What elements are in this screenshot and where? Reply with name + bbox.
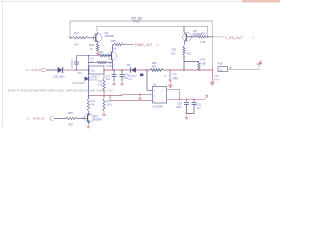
capacitor C9 between gate row and signal wire <box>76 56 78 62</box>
flag under R23 <box>103 112 105 114</box>
svg-text:2N5087: 2N5087 <box>93 118 103 122</box>
resistor R29 (Q6 emitter) <box>96 44 99 52</box>
junction Q8 base <box>191 36 193 38</box>
input port symbol <box>41 68 46 71</box>
wire: input to C26 <box>46 69 59 71</box>
resistor R on gate row <box>99 54 108 56</box>
junction rail x186.5 <box>186 99 188 101</box>
svg-text:1N5817: 1N5817 <box>91 75 100 78</box>
svg-text:R24: R24 <box>98 81 103 83</box>
wire: B drop to Q8 collector <box>183 26 185 32</box>
wire: right rail lower <box>212 37 214 70</box>
svg-text:R25: R25 <box>68 111 73 115</box>
svg-text:10k: 10k <box>171 52 176 56</box>
wires to U2 left pins <box>109 96 111 101</box>
+9V pink down flag onto pin wire <box>169 78 171 85</box>
junction x199 <box>198 69 200 71</box>
wire y=95.6 <box>89 95 123 97</box>
-9V flag below output node <box>212 70 214 80</box>
boxed component on signal wire <box>89 66 104 74</box>
wire: right rail upper <box>212 21 214 37</box>
wire to R17 <box>70 37 72 39</box>
svg-text:U2: U2 <box>153 82 157 86</box>
9V port symbol <box>50 117 54 120</box>
resistor R35 10K on wire A <box>132 20 142 22</box>
diode D below box <box>85 77 90 82</box>
svg-text:C33: C33 <box>171 48 176 52</box>
-9V floating down flag <box>211 78 213 83</box>
svg-text:47k: 47k <box>74 43 79 47</box>
svg-text:R29: R29 <box>98 50 103 54</box>
svg-text:R35: R35 <box>131 16 136 20</box>
power rail y=99.3 <box>167 98 205 100</box>
diode D7 (input) <box>58 67 63 73</box>
pink down arrow -9V <box>212 80 214 82</box>
IC U2 box <box>153 87 167 104</box>
svg-text:10k: 10k <box>112 47 117 51</box>
capacitor C30 <box>186 99 188 102</box>
svg-text:R36: R36 <box>218 62 223 66</box>
junction x110 y95.6 <box>109 95 111 97</box>
transistor Q10 2N5087 (vertical) <box>87 115 89 122</box>
svg-text:NOTE: IF USING A 9V BATTERY SU: NOTE: IF USING A 9V BATTERY SUPPLY ONLY,… <box>8 89 113 93</box>
svg-text:1.3K: 1.3K <box>200 40 206 44</box>
junction x147 <box>146 69 148 71</box>
svg-text:100n: 100n <box>176 106 182 109</box>
transistor Q6 2N5088 <box>95 34 97 41</box>
junction x184 <box>183 69 185 71</box>
junction cap branch <box>76 69 78 71</box>
svg-text:100k: 100k <box>97 85 103 87</box>
wire: A left drop to Q6 base row <box>69 21 71 38</box>
svg-text:1R: 1R <box>26 70 29 72</box>
svg-text:TL0: TL0 <box>91 70 96 73</box>
resistor pair lower <box>88 96 90 99</box>
vertical from box node down <box>88 70 90 96</box>
svg-text:Q10: Q10 <box>93 114 98 118</box>
capacitor C31 <box>193 99 195 102</box>
wire to JFET gate <box>109 55 111 57</box>
wire: emitter to signal node <box>183 55 185 70</box>
junction x170 <box>169 69 171 71</box>
svg-text:2N5457: 2N5457 <box>106 65 115 68</box>
wire from signal node x147 down to U2 pin <box>146 70 148 90</box>
svg-text:C26 100n: C26 100n <box>53 75 65 79</box>
wire: main signal run (maroon) <box>104 69 131 71</box>
junction at box input <box>88 69 90 71</box>
sheet top border <box>0 0 280 2</box>
wire to net label <box>123 44 134 46</box>
resistor column x=104 upper <box>103 70 105 79</box>
flag under Q10 <box>87 124 89 126</box>
svg-text:1N POWER: 1N POWER <box>72 82 85 85</box>
junction x122 <box>121 69 123 71</box>
wire: B right drop to base row <box>207 26 209 37</box>
junction Q6 base <box>93 37 95 39</box>
svg-text:LT1054C: LT1054C <box>152 104 163 108</box>
svg-text:1uF: 1uF <box>128 78 133 81</box>
capacitor C27 <box>113 70 115 74</box>
svg-text:C29: C29 <box>172 74 177 76</box>
svg-text:R31: R31 <box>201 32 206 36</box>
junction at R17 left <box>69 37 71 39</box>
join + ground <box>187 113 195 115</box>
resistor R17 <box>72 37 88 40</box>
svg-text:1R: 1R <box>27 118 30 120</box>
svg-text:D9: D9 <box>127 63 131 67</box>
pink down arrow under R23 <box>103 111 105 113</box>
junction x114 <box>113 69 115 71</box>
resistor R30 on signal wire <box>150 69 163 72</box>
junction rail x179.7 <box>179 99 181 101</box>
drain row: resistor R26 to net label <box>112 44 115 46</box>
resistor R31 (base) <box>193 36 198 38</box>
junction gnd join <box>186 113 188 115</box>
svg-text:680: 680 <box>202 62 207 66</box>
svg-text:100n: 100n <box>106 79 112 81</box>
svg-text:4K7: 4K7 <box>152 65 157 68</box>
svg-text:+9V: +9V <box>174 77 179 81</box>
svg-text:R29: R29 <box>89 43 94 47</box>
wire: C26 to box <box>63 69 89 71</box>
svg-text:10K: 10K <box>138 16 143 20</box>
svg-text:47uF: 47uF <box>214 79 220 82</box>
ground below R29 <box>97 51 99 53</box>
junction Q10 base <box>82 118 84 120</box>
wire: gate row y=55.5 <box>77 55 100 57</box>
wire R25 to Q10 base <box>77 118 82 120</box>
ground below C27 <box>113 81 115 83</box>
JFET Q3 2N5457 <box>111 52 113 60</box>
svg-text:47u: 47u <box>197 107 202 110</box>
junction x104 <box>103 69 105 71</box>
stub to net label C_R9_OUT <box>213 36 225 38</box>
svg-text:100k: 100k <box>107 103 113 106</box>
junction rail x194 <box>193 99 195 101</box>
svg-text:R26: R26 <box>111 39 116 43</box>
tick after R36 box <box>229 67 231 69</box>
ground below C28 <box>121 81 123 83</box>
junction gate row x88.5 <box>88 55 90 57</box>
svg-text:47u: 47u <box>124 77 129 80</box>
ground arrow below caps <box>186 115 188 117</box>
source resistor row y=62.5 <box>89 62 98 64</box>
ground stub on pin wire <box>139 94 141 96</box>
wire to output flag <box>228 69 260 71</box>
svg-text:IN_GTR: IN_GTR <box>31 68 41 72</box>
wire 9V port to R25 <box>54 118 66 120</box>
svg-text:SB140: SB140 <box>91 80 98 82</box>
svg-text:C_R9_OUT: C_R9_OUT <box>225 36 242 40</box>
pink band top right <box>242 0 280 3</box>
wire: collector wire B (y=26.3) <box>97 25 208 27</box>
wire R17 to Q6 base <box>88 37 93 39</box>
sheet left border <box>1 1 3 127</box>
svg-text:4R7: 4R7 <box>69 123 74 127</box>
junction emitter node <box>183 56 185 58</box>
ground arrow mid <box>139 96 141 98</box>
branch to R34 <box>184 61 199 63</box>
svg-text:2N5457: 2N5457 <box>70 58 74 68</box>
junction gate <box>108 55 110 57</box>
svg-text:2N5088: 2N5088 <box>105 34 115 38</box>
NE arrow flag at rail end <box>205 95 208 99</box>
resistor R16 (Q8 emitter) <box>183 46 186 55</box>
junction gnd stub <box>139 94 141 96</box>
svg-text:47u: 47u <box>78 71 83 75</box>
svg-text:47u: 47u <box>187 53 192 56</box>
svg-text:Q6: Q6 <box>105 31 109 35</box>
cap branch x=104 to ground at x=122 <box>113 76 115 80</box>
wire: B left drop to Q6 collector <box>96 26 98 31</box>
svg-text:R34: R34 <box>201 58 206 62</box>
resistor R25 <box>66 117 77 119</box>
svg-text:DC9V_IN: DC9V_IN <box>33 117 44 121</box>
transistor Q8 2N3904 (mirrored) <box>185 34 187 41</box>
diode D9 on signal wire <box>131 67 136 73</box>
junction right rail <box>212 69 214 71</box>
red output flag <box>257 61 262 65</box>
U2 right pin wire + power flag <box>167 89 180 91</box>
boxed resistor R36 on output <box>218 67 228 72</box>
wire: top feedback wire A <box>70 20 132 22</box>
junction feedback <box>207 36 209 38</box>
svg-text:R17: R17 <box>74 31 79 35</box>
svg-text:C27: C27 <box>106 76 111 78</box>
ground below C29 <box>169 77 171 79</box>
svg-text:TONE_OUT: TONE_OUT <box>135 43 153 47</box>
junction x104 y95.6 <box>103 95 105 97</box>
capacitor C28 <box>121 70 123 74</box>
